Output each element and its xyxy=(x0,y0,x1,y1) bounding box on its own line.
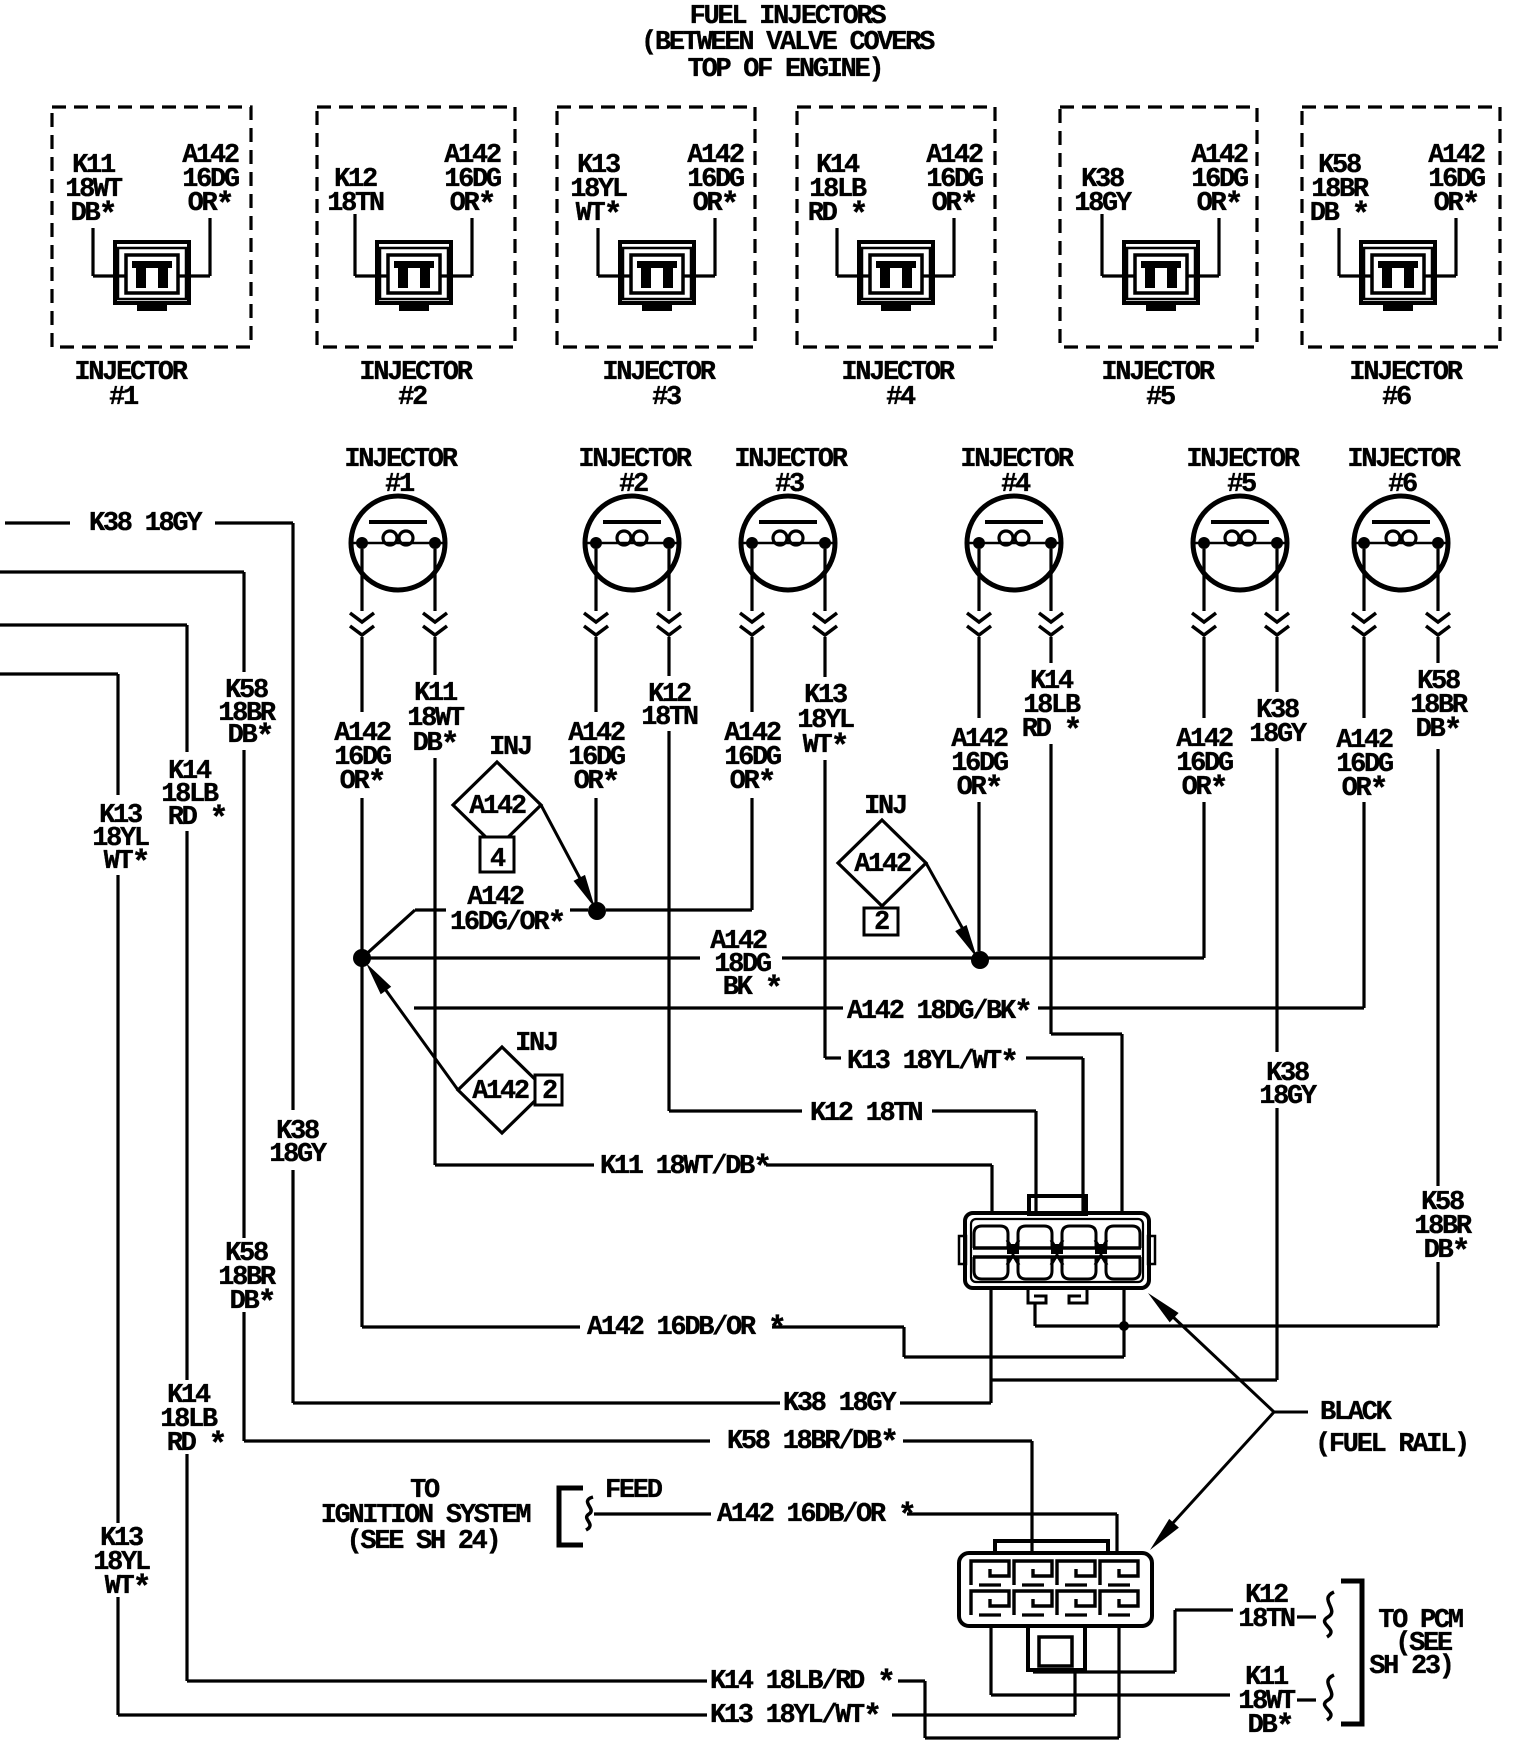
label K13 18YL WT* (on left vertical) xyxy=(93,1524,150,1607)
wire K11 18WT DB* to PCM xyxy=(991,1626,1316,1700)
svg-text:2: 2 xyxy=(874,908,889,938)
svg-text:DB*: DB* xyxy=(71,197,116,234)
svg-text:RD *: RD * xyxy=(808,197,867,234)
label A142 16DG OR* on injector #2 left wire xyxy=(568,719,625,802)
label A142 16DG OR* on injector #5 left wire xyxy=(1176,725,1233,808)
label A142 16DG OR* on injector #4 left wire xyxy=(951,725,1008,808)
connector cavity symbol INJ A142 cavity 2 lower (diamond) xyxy=(458,1029,562,1133)
svg-text:DB*: DB* xyxy=(230,1285,275,1322)
label K38 18GY (on left vertical) xyxy=(269,1117,328,1170)
wire K38 18GY lower run to 8-pin connector xyxy=(293,1290,1277,1403)
label K12 on injector right wire xyxy=(641,680,698,733)
svg-text:18TN: 18TN xyxy=(1238,1605,1295,1635)
wire A142 pin lead (injector #1) xyxy=(179,218,210,276)
label K38 on injector right wire xyxy=(1249,696,1308,750)
label A142 16DG OR* (injector #5) xyxy=(1191,141,1248,224)
label K12 xyxy=(327,165,384,219)
svg-text:INJ: INJ xyxy=(489,733,531,763)
8-pin connector bottom index tabs xyxy=(1028,1290,1087,1303)
arrow from INJ diamond 3 to A142 node at injector1 xyxy=(366,963,458,1090)
TO PCM bracket xyxy=(1341,1581,1362,1724)
wire stubs below injector #5 with disconnect chevrons xyxy=(1192,549,1289,635)
svg-text:#5: #5 xyxy=(1146,383,1175,413)
6-pin fuel rail connector (black) xyxy=(959,1541,1152,1626)
label A142 16DG OR* (injector #1) xyxy=(182,141,239,224)
svg-text:OR*: OR* xyxy=(1434,187,1479,224)
label K58 xyxy=(1310,151,1370,234)
label K12 18TN (PCM side) xyxy=(1238,1581,1295,1635)
label K58 18BR DB* (upper, on left vertical) xyxy=(218,676,277,756)
arrow from INJ diamond 2 to A142 node at injector4 xyxy=(926,863,977,958)
label K14 on injector right wire xyxy=(1022,667,1081,750)
injector #5 symbol (circle with coil) xyxy=(1186,445,1300,590)
label K58 18BR DB* (lower, on injector6 right wire) xyxy=(1414,1188,1473,1271)
svg-text:OR*: OR* xyxy=(932,187,977,224)
svg-text:RD *: RD * xyxy=(168,801,227,838)
wire K13 from left edge xyxy=(0,674,118,1715)
wire K38 pin lead xyxy=(1102,214,1134,276)
injector #4 symbol (circle with coil) xyxy=(960,445,1074,590)
label K58 on injector right wire xyxy=(1410,667,1469,750)
svg-text:OR*: OR* xyxy=(188,187,233,224)
junction dot node A142 (injector2 left / branch) xyxy=(588,902,606,920)
svg-text:#1: #1 xyxy=(109,383,139,413)
wire A142 16DB/OR* feed to 6-pin connector xyxy=(594,1514,1117,1553)
wire K13 injector3 right drop xyxy=(823,637,826,1058)
wire A142 pin lead (injector #2) xyxy=(441,218,472,276)
injector #1 dashed box xyxy=(52,107,251,347)
svg-text:WT*: WT* xyxy=(105,1570,150,1607)
svg-text:WT*: WT* xyxy=(576,197,621,234)
label BLACK (FUEL RAIL) xyxy=(1315,1398,1468,1460)
BLACK (FUEL RAIL) callout arrows xyxy=(1148,1293,1308,1550)
wire stubs below injector #1 with disconnect chevrons xyxy=(350,549,447,635)
svg-text:K13 18YL/WT*: K13 18YL/WT* xyxy=(710,1699,880,1736)
label K13 xyxy=(570,151,627,234)
wire K14 pin lead xyxy=(837,228,869,276)
svg-text:A142: A142 xyxy=(472,1077,529,1107)
wire A142 pin lead (injector #4) xyxy=(923,218,954,276)
svg-text:#2: #2 xyxy=(398,383,427,413)
svg-text:K13 18YL/WT*: K13 18YL/WT* xyxy=(847,1045,1017,1082)
wire A142 16DB/OR* from node to 8-pin connector xyxy=(362,958,1124,1357)
junction dot node A142 (injector1 left / bus) xyxy=(353,949,371,967)
svg-text:OR*: OR* xyxy=(1197,187,1242,224)
caption INJECTOR #6 xyxy=(1349,358,1463,413)
injector #3 dashed box xyxy=(557,107,755,347)
label A142 16DG OR* (injector #4) xyxy=(926,141,983,224)
svg-text:DB*: DB* xyxy=(1424,1234,1469,1271)
wire K58 18BR/DB* lower run to 6-pin connector xyxy=(244,1441,1032,1553)
caption INJECTOR #5 xyxy=(1101,358,1215,413)
svg-text:FEED: FEED xyxy=(605,1476,663,1506)
wire A142 injector6 left drop xyxy=(1362,637,1365,1008)
wire A142 injector5 left drop xyxy=(1202,637,1205,958)
wire stubs below injector #2 with disconnect chevrons xyxy=(584,549,681,635)
svg-text:K38 18GY: K38 18GY xyxy=(783,1389,897,1419)
wire K14 from left edge xyxy=(0,625,187,1681)
wire K58 from left edge xyxy=(0,572,244,1441)
svg-text:K12 18TN: K12 18TN xyxy=(810,1099,922,1129)
injector #3 symbol (circle with coil) xyxy=(734,445,848,590)
svg-text:18GY: 18GY xyxy=(1074,189,1133,219)
svg-text:4: 4 xyxy=(490,845,506,875)
wire K13 18YL/WT* bottom run to 6-pin connector xyxy=(118,1672,1075,1715)
svg-text:A142 18DG/BK*: A142 18DG/BK* xyxy=(847,995,1031,1032)
svg-text:(BETWEEN VALVE COVERS: (BETWEEN VALVE COVERS xyxy=(641,28,935,58)
wire K13 18YL/WT* to 8-pin connector xyxy=(825,1058,1083,1213)
wire A142 18DG BK* bus xyxy=(362,956,1204,959)
caption INJECTOR #2 xyxy=(359,358,473,413)
label K38 18GY (lower, on injector5 right wire) xyxy=(1259,1059,1318,1112)
svg-text:DB *: DB * xyxy=(1310,197,1369,234)
label K14 18LB RD* (on left vertical) xyxy=(160,1381,225,1464)
label A142 16DG OR* (injector #6) xyxy=(1428,141,1485,224)
label A142 16DG OR* on injector #6 left wire xyxy=(1336,726,1393,809)
label K58 18BR DB* (on left vertical) xyxy=(218,1239,277,1322)
arrow from INJ diamond 1 to A142 node xyxy=(541,805,595,908)
svg-text:OR*: OR* xyxy=(693,187,738,224)
label K13 18YL WT* (upper, on left vertical) xyxy=(92,801,149,882)
svg-text:18GY: 18GY xyxy=(1249,720,1308,750)
wire K14 to 8-pin connector xyxy=(1051,1034,1122,1213)
label A142 16DG OR* on injector #3 left wire xyxy=(724,719,781,802)
label K14 xyxy=(808,151,867,234)
caption INJECTOR #4 xyxy=(841,358,955,413)
injector #1 symbol (circle with coil) xyxy=(344,445,458,590)
injector #6 dashed box xyxy=(1302,107,1500,347)
svg-text:INJ: INJ xyxy=(864,792,906,822)
wire A142 18DG/BK* to injector6 left xyxy=(414,1006,1364,1009)
svg-text:SH 23): SH 23) xyxy=(1369,1652,1452,1682)
svg-text:#3: #3 xyxy=(652,383,681,413)
wire K11 18WT/DB* to 8-pin connector xyxy=(435,1165,992,1213)
wire stubs below injector #4 with disconnect chevrons xyxy=(967,549,1063,635)
injector #2 symbol (circle with coil) xyxy=(578,445,692,590)
connector cavity symbol INJ A142 cavity 2 (diamond) xyxy=(838,792,926,938)
svg-text:18GY: 18GY xyxy=(1259,1082,1318,1112)
svg-text:DB*: DB* xyxy=(1248,1709,1293,1746)
wire K58 injector6 right drop xyxy=(1436,637,1439,1326)
wire stubs below injector #3 with disconnect chevrons xyxy=(740,549,837,635)
wire K12 injector2 right drop xyxy=(667,637,670,1111)
label K13 on injector right wire xyxy=(797,681,854,766)
svg-text:A142 16DB/OR *: A142 16DB/OR * xyxy=(717,1498,915,1535)
title: FUEL INJECTORS (BETWEEN VALVE COVERS TOP OF ENGINE) xyxy=(641,2,935,85)
injector #6 symbol (circle with coil) xyxy=(1347,445,1461,590)
wire A142 injector4 left drop xyxy=(977,637,980,951)
connector cavity symbol INJ A142 cavity 4 (diamond) xyxy=(453,733,541,875)
wire K38 injector5 right drop xyxy=(1275,637,1278,1380)
pigtail squiggle K11 xyxy=(1325,1675,1334,1720)
injector #4 dashed box xyxy=(797,107,995,347)
wire K12 18TN to 8-pin connector xyxy=(669,1111,1036,1213)
injector #6 connector icon xyxy=(1361,242,1435,311)
wire K11 pin lead xyxy=(93,228,125,276)
label A142 16DG OR* on injector #1 left wire xyxy=(334,719,391,802)
wire K12 18TN to PCM xyxy=(1033,1610,1316,1672)
label A142 16DG OR* (injector #3) xyxy=(687,141,744,224)
svg-text:A142: A142 xyxy=(469,792,526,822)
svg-text:K58 18BR/DB*: K58 18BR/DB* xyxy=(727,1425,897,1462)
label TO PCM (SEE SH 23) xyxy=(1369,1606,1463,1682)
wire K38 18GY from left edge xyxy=(5,523,293,1403)
svg-text:OR*: OR* xyxy=(340,765,385,802)
svg-text:WT*: WT* xyxy=(104,845,149,882)
wire K58 pin stub from 8-pin connector to injector6 xyxy=(1035,1303,1438,1326)
svg-text:K14 18LB/RD *: K14 18LB/RD * xyxy=(710,1665,894,1702)
svg-text:OR*: OR* xyxy=(450,187,495,224)
svg-text:2: 2 xyxy=(542,1077,557,1107)
svg-text:RD *: RD * xyxy=(167,1427,226,1464)
wire K13 pin lead xyxy=(598,228,630,276)
svg-text:16DG/OR*: 16DG/OR* xyxy=(450,906,564,943)
svg-text:BLACK: BLACK xyxy=(1320,1398,1393,1428)
injector #5 dashed box xyxy=(1060,107,1257,347)
svg-text:#4: #4 xyxy=(886,383,916,413)
6-pin connector bottom tab xyxy=(1028,1626,1085,1670)
label A142 16DG/OR* (branch) xyxy=(450,883,564,943)
label K38 xyxy=(1074,165,1133,219)
caption INJECTOR #3 xyxy=(602,358,716,413)
svg-text:A142 16DB/OR *: A142 16DB/OR * xyxy=(587,1311,785,1348)
injector #2 dashed box xyxy=(317,107,515,347)
wire A142 injector1 left drop xyxy=(360,637,363,950)
svg-text:DB*: DB* xyxy=(1416,713,1461,750)
label K11 18WT DB* (PCM side) xyxy=(1238,1663,1296,1746)
injector #1 connector icon xyxy=(115,242,189,311)
to-ignition bracket symbol xyxy=(559,1488,593,1545)
wire K11 injector1 right drop xyxy=(433,637,436,1165)
wire K12 pin lead xyxy=(355,214,387,276)
label A142 16DG OR* (injector #2) xyxy=(444,141,501,224)
8-pin fuel rail connector (black) xyxy=(959,1196,1155,1288)
caption INJECTOR #1 xyxy=(74,358,188,413)
svg-text:(SEE SH 24): (SEE SH 24) xyxy=(347,1527,500,1557)
svg-text:OR*: OR* xyxy=(730,765,775,802)
wire A142 injector2 left drop xyxy=(594,637,597,903)
svg-text:INJ: INJ xyxy=(515,1029,557,1059)
label K11 on injector right wire xyxy=(407,679,465,764)
injector #4 connector icon xyxy=(859,242,933,311)
svg-text:K11 18WT/DB*: K11 18WT/DB* xyxy=(600,1150,770,1187)
svg-text:OR*: OR* xyxy=(574,765,619,802)
svg-text:BK *: BK * xyxy=(723,971,782,1008)
label A142 18DG BK* (on bus) xyxy=(710,927,781,1008)
svg-text:K38 18GY: K38 18GY xyxy=(89,509,203,539)
label K14 18LB RD* (upper, on left vertical) xyxy=(161,757,226,838)
svg-text:DB*: DB* xyxy=(228,719,273,756)
junction dot node A142 (injector4 left / bus) xyxy=(971,951,989,969)
svg-text:(FUEL RAIL): (FUEL RAIL) xyxy=(1315,1430,1468,1460)
label TO IGNITION SYSTEM (SEE SH 24) xyxy=(321,1476,531,1557)
label K11 xyxy=(65,151,123,234)
pigtail squiggle K12 xyxy=(1325,1592,1334,1637)
svg-text:A142: A142 xyxy=(854,850,911,880)
wire A142 16DG/OR* branch xyxy=(362,910,752,958)
svg-text:18TN: 18TN xyxy=(641,703,698,733)
wire A142 pin lead (injector #6) xyxy=(1425,218,1456,276)
wire A142 pin lead (injector #3) xyxy=(684,218,715,276)
wire K14 injector4 right drop xyxy=(1049,637,1052,1034)
svg-text:18TN: 18TN xyxy=(327,189,384,219)
wire A142 injector3 left drop xyxy=(750,637,753,910)
wire K14 18LB/RD* bottom run to 6-pin connector xyxy=(187,1626,1119,1738)
injector #3 connector icon xyxy=(620,242,694,311)
svg-text:#6: #6 xyxy=(1382,383,1411,413)
svg-text:TOP OF ENGINE): TOP OF ENGINE) xyxy=(688,55,883,85)
junction blob at A142 crossing xyxy=(1119,1321,1129,1331)
injector #5 connector icon xyxy=(1124,242,1198,311)
wire stubs below injector #6 with disconnect chevrons xyxy=(1352,549,1450,635)
wire A142 pin lead (injector #5) xyxy=(1188,218,1219,276)
wire K58 pin lead xyxy=(1339,228,1371,276)
svg-text:18GY: 18GY xyxy=(269,1140,328,1170)
injector #2 connector icon xyxy=(377,242,451,311)
